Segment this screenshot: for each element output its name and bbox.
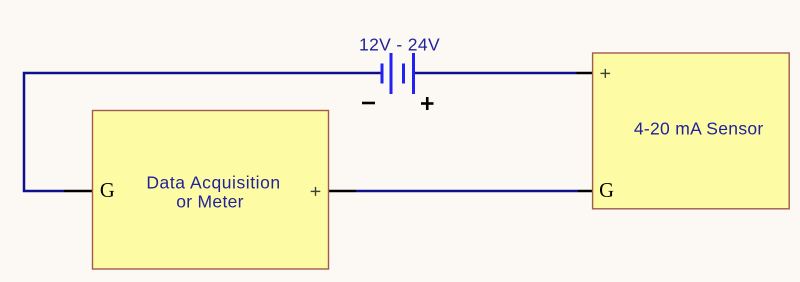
wire: meter G pin lead (black) (64, 190, 93, 193)
data acquisition box U1 (93, 111, 329, 270)
battery minus polarity mark (362, 102, 375, 105)
battery plus polarity mark (421, 97, 434, 110)
pin marker + (meter output) (311, 187, 321, 196)
wire: battery positive to sensor pin (414, 72, 577, 75)
wire: meter + pin lead (black) (329, 190, 357, 193)
svg-text:G: G (100, 180, 115, 202)
wire: sensor + pin lead (black) (577, 72, 594, 75)
svg-text:or Meter: or Meter (176, 192, 244, 212)
wire: top run from left corner to battery negative plate (24, 73, 381, 191)
pin marker + (sensor supply) (601, 69, 611, 78)
wire: sensor G pin lead (black) (578, 190, 593, 193)
svg-text:12V - 24V: 12V - 24V (359, 35, 440, 55)
svg-text:G: G (599, 180, 614, 202)
sensor box U2 (593, 53, 790, 209)
svg-text:Data Acquisition: Data Acquisition (146, 173, 280, 193)
svg-text:4-20 mA Sensor: 4-20 mA Sensor (634, 119, 764, 139)
battery B1 plates (382, 53, 414, 94)
wire: meter + to sensor G (356, 190, 578, 193)
